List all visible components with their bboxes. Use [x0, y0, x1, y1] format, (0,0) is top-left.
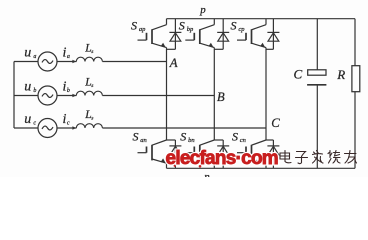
diode D_ap (freewheel, top): [167, 19, 182, 50]
svg-text:an: an: [140, 137, 147, 144]
label S_an: [133, 129, 147, 143]
node B: [217, 90, 225, 104]
wire: source to inductor with current arrow i_b: [57, 95, 77, 97]
inductor L_a: [76, 57, 102, 61]
svg-text:u: u: [24, 112, 31, 127]
label u_b: [24, 79, 36, 94]
current arrow i_a: [72, 60, 76, 63]
svg-text:ap: ap: [139, 26, 146, 33]
svg-text:bn: bn: [188, 137, 195, 144]
igbt S_cn: [237, 128, 266, 168]
svg-text:S: S: [179, 19, 185, 33]
label S_cp: [231, 19, 246, 33]
wire: phase b to bridge leg: [102, 95, 214, 97]
current arrow i_b: [72, 94, 76, 97]
node C: [271, 116, 280, 130]
svg-text:S: S: [231, 19, 237, 33]
diode D_cp (freewheel, top): [266, 19, 279, 50]
capacitor C: [307, 19, 326, 169]
label S_bn: [180, 129, 194, 143]
wire: phase a to bridge leg: [102, 61, 166, 63]
svg-text:elecfans·com: elecfans·com: [166, 148, 278, 169]
svg-text:B: B: [217, 90, 225, 104]
svg-text:bp: bp: [187, 26, 194, 33]
label u_c: [24, 112, 36, 127]
wire: source to inductor with current arrow i_a: [57, 61, 77, 63]
diode D_cn (freewheel, bottom): [266, 140, 279, 168]
inductor L_c: [76, 124, 102, 128]
wire: source to inductor with current arrow i_c: [57, 127, 77, 129]
wire: left neutral bus: [13, 62, 15, 129]
voltage source u_b: [38, 86, 57, 105]
svg-text:R: R: [336, 67, 345, 82]
inductor L_b: [76, 91, 102, 95]
svg-text:S: S: [232, 129, 238, 143]
diode D_bn (freewheel, bottom): [214, 140, 229, 168]
label S_cn: [232, 129, 246, 143]
svg-text:c: c: [33, 121, 36, 127]
diode D_an (freewheel, bottom): [167, 140, 182, 168]
svg-text:i: i: [63, 112, 67, 127]
svg-text:A: A: [169, 56, 178, 70]
svg-text:cp: cp: [238, 26, 245, 33]
svg-text:p: p: [199, 4, 206, 16]
label L_c: [84, 109, 93, 122]
svg-text:s: s: [91, 83, 93, 89]
voltage source u_c: [38, 119, 57, 138]
label L_a: [84, 43, 93, 56]
node n label: [204, 171, 210, 183]
watermark 电子发烧友: [280, 151, 357, 164]
current arrow i_c: [72, 126, 76, 129]
igbt S_ap: [138, 19, 167, 62]
igbt S_bp: [185, 19, 214, 96]
svg-text:c: c: [67, 121, 70, 127]
svg-text:s: s: [91, 116, 93, 122]
svg-text:s: s: [91, 49, 93, 55]
resistor R: [352, 19, 360, 169]
svg-text:S: S: [180, 129, 186, 143]
svg-text:a: a: [67, 54, 70, 60]
label i_c: [63, 112, 70, 127]
svg-text:a: a: [33, 54, 36, 60]
svg-text:u: u: [24, 45, 31, 60]
wire: phase a stub from bus to source: [14, 61, 38, 63]
wire: phase b stub from bus to source: [14, 95, 38, 97]
svg-text:C: C: [271, 116, 280, 130]
svg-text:i: i: [63, 79, 67, 94]
svg-text:b: b: [67, 88, 70, 94]
node p label: [199, 4, 206, 16]
label u_a: [24, 45, 36, 60]
watermark elecfans.com: [166, 148, 278, 169]
svg-text:n: n: [204, 171, 210, 177]
svg-text:S: S: [133, 129, 139, 143]
node A: [169, 56, 178, 70]
svg-text:C: C: [294, 67, 303, 82]
label R: [336, 67, 345, 82]
wire: positive dc rail p: [167, 18, 356, 20]
label L_b: [84, 77, 93, 90]
voltage source u_a: [38, 52, 57, 71]
wire: negative dc rail n: [167, 167, 356, 169]
label S_ap: [131, 19, 146, 33]
label S_bp: [179, 19, 194, 33]
wire: phase c to bridge leg: [102, 127, 266, 129]
svg-text:cn: cn: [240, 137, 246, 144]
svg-text:b: b: [33, 88, 36, 94]
igbt S_bn: [185, 96, 214, 169]
igbt S_cp: [237, 19, 266, 128]
svg-text:i: i: [63, 45, 67, 60]
label i_b: [63, 79, 70, 94]
label i_a: [63, 45, 70, 60]
igbt S_an: [138, 62, 167, 169]
label C: [294, 67, 303, 82]
wire: phase c stub from bus to source: [14, 127, 38, 129]
svg-text:S: S: [131, 19, 137, 33]
svg-text:u: u: [24, 79, 31, 94]
diode D_bp (freewheel, top): [214, 19, 229, 50]
